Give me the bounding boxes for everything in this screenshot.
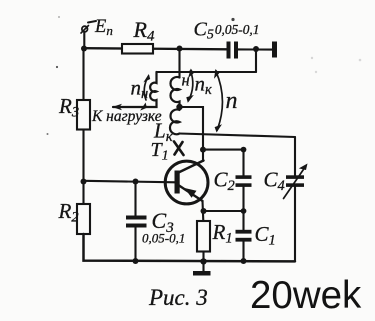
svg-text:nк: nк bbox=[195, 72, 213, 99]
node: R1 bottom rail junction bbox=[200, 258, 206, 264]
node: emitter junction bbox=[201, 208, 207, 214]
wire: R3 to base junction bbox=[82, 130, 84, 182]
svg-text:R1: R1 bbox=[212, 220, 233, 247]
wire: rail down to coil bbox=[178, 49, 180, 78]
wire: collector junction to C2 bbox=[203, 149, 244, 151]
wire: tap to collector column bbox=[180, 107, 204, 150]
svg-text:Рис. 3: Рис. 3 bbox=[148, 285, 208, 310]
arrowhead to load bbox=[112, 104, 122, 110]
inductor Lк upper half bbox=[171, 77, 180, 107]
wire: emitter line to C2/C1 column bbox=[204, 210, 244, 212]
node: collector junction bbox=[200, 147, 206, 153]
svg-text:20wek: 20wek bbox=[250, 274, 362, 317]
capacitor C4 variable bbox=[284, 137, 308, 261]
capacitor C5 bbox=[227, 42, 273, 59]
svg-text:R2: R2 bbox=[58, 199, 79, 226]
wire: C5 right down to link line bbox=[255, 49, 257, 72]
svg-text:н: н bbox=[182, 71, 190, 90]
svg-text:0,05-0,1: 0,05-0,1 bbox=[142, 231, 185, 246]
node after C5 bbox=[253, 46, 259, 52]
svg-text:C4: C4 bbox=[264, 168, 285, 195]
node: C3 bottom bbox=[133, 258, 139, 264]
svg-text:R4: R4 bbox=[133, 17, 155, 45]
nк arc arrow bbox=[186, 69, 194, 103]
svg-text:C50,05-0,1: C50,05-0,1 bbox=[194, 19, 260, 43]
node: C1 bottom bbox=[241, 258, 247, 264]
x mark bbox=[174, 142, 184, 156]
capacitor C3 bbox=[126, 182, 147, 262]
resistor R2 bbox=[77, 204, 90, 234]
label -Eп bbox=[88, 17, 113, 38]
node: rail-left junction bbox=[81, 46, 87, 52]
svg-text:C1: C1 bbox=[255, 222, 276, 249]
wire: R2 to bottom rail bbox=[84, 234, 296, 261]
capacitor C2 bbox=[236, 150, 252, 211]
wire: emitter down bbox=[201, 201, 204, 221]
wire: left column upper bbox=[82, 49, 84, 101]
wire: link line y=72 bbox=[157, 71, 257, 73]
node: coil tap bbox=[176, 104, 182, 110]
scan specks bbox=[56, 66, 58, 68]
svg-text:Eп: Eп bbox=[94, 17, 113, 38]
coupling coil nн bbox=[113, 72, 157, 107]
wire: coil bottom to C4 bbox=[180, 134, 296, 138]
output terminal bar bbox=[272, 42, 277, 58]
caption Рис. 3 bbox=[148, 285, 208, 310]
terminal -Ep bbox=[81, 26, 89, 49]
node: rail to coil junction bbox=[177, 46, 183, 52]
svg-text:R3: R3 bbox=[58, 94, 79, 121]
wire: base junction to R2 bbox=[82, 182, 84, 205]
wire: base line bbox=[84, 181, 177, 183]
resistor R4 bbox=[122, 44, 153, 54]
svg-text:К нагрузке: К нагрузке bbox=[91, 108, 162, 125]
wire: R1 to ground bbox=[202, 252, 204, 272]
n arc arrow bbox=[214, 69, 222, 133]
capacitor C1 bbox=[236, 211, 252, 261]
resistor R3 bbox=[77, 100, 90, 130]
svg-text:C2: C2 bbox=[214, 168, 235, 195]
wire: collector lead bbox=[202, 150, 204, 161]
node: base-C3 junction bbox=[133, 179, 139, 185]
wire: top rail bbox=[84, 48, 227, 49]
resistor R1 bbox=[197, 221, 210, 252]
transistor T1 bbox=[165, 161, 208, 204]
nн arc arrow bbox=[140, 73, 151, 111]
inductor Lк lower half bbox=[170, 110, 180, 135]
svg-text:n: n bbox=[226, 88, 238, 114]
node: base-R3R2 junction bbox=[81, 179, 87, 185]
ground bbox=[193, 271, 211, 276]
